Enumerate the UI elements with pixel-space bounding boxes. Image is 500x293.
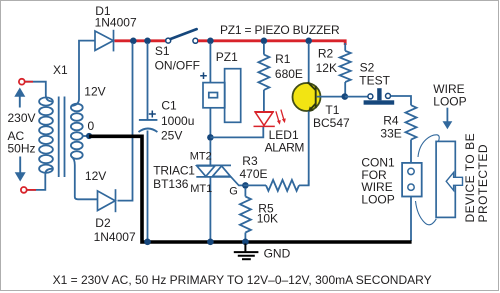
wire: T1 base to node bbox=[317, 96, 345, 98]
svg-text:X1 = 230V AC, 50 Hz PRIMARY TO: X1 = 230V AC, 50 Hz PRIMARY TO 12V–0–12V… bbox=[53, 273, 432, 287]
wire: secondary bottom to D2 anode bbox=[72, 157, 98, 200]
wire: 230V bottom terminal to primary bottom bbox=[25, 169, 53, 190]
svg-text:PZ1: PZ1 bbox=[216, 50, 238, 64]
svg-text:LOOP: LOOP bbox=[361, 192, 394, 206]
LED1 bbox=[254, 110, 286, 127]
svg-text:D2: D2 bbox=[95, 216, 111, 230]
svg-text:25V: 25V bbox=[161, 128, 182, 142]
node: T1 base / R2 / S2 bbox=[342, 93, 349, 100]
svg-text:680E: 680E bbox=[275, 67, 303, 81]
svg-text:ON/OFF: ON/OFF bbox=[155, 59, 200, 73]
connector CON1 bbox=[402, 163, 422, 197]
svg-text:12K: 12K bbox=[316, 61, 337, 75]
svg-text:GND: GND bbox=[264, 247, 291, 261]
svg-text:R4: R4 bbox=[383, 113, 399, 127]
switch S2 bbox=[345, 96, 368, 98]
svg-text:230V: 230V bbox=[8, 111, 36, 125]
node: C1 on bus bbox=[144, 239, 151, 246]
piezo buzzer PZ1 bbox=[209, 43, 211, 83]
wire loop curve bottom bbox=[416, 201, 437, 225]
svg-text:MT2: MT2 bbox=[190, 150, 212, 162]
svg-text:LOOP: LOOP bbox=[433, 95, 466, 109]
transformer X1 bbox=[25, 41, 98, 200]
plus C1 bbox=[149, 111, 156, 118]
wire: red stub top bbox=[25, 81, 33, 83]
node: gate/R3/R5 bbox=[242, 182, 249, 189]
svg-text:S2: S2 bbox=[360, 60, 375, 74]
svg-text:R3: R3 bbox=[242, 154, 258, 168]
svg-text:PZ1 = PIEZO BUZZER: PZ1 = PIEZO BUZZER bbox=[220, 23, 340, 37]
svg-text:1N4007: 1N4007 bbox=[94, 230, 136, 244]
svg-text:12V: 12V bbox=[85, 169, 106, 183]
svg-text:33E: 33E bbox=[380, 126, 401, 140]
triac TRIAC1 bbox=[209, 141, 211, 166]
svg-text:S1: S1 bbox=[155, 44, 170, 58]
svg-text:1N4007: 1N4007 bbox=[95, 15, 137, 29]
ground bbox=[234, 244, 259, 260]
wire: red bus S1 to R2 corner bbox=[198, 41, 345, 45]
core bbox=[58, 97, 60, 178]
svg-text:BC547: BC547 bbox=[313, 116, 350, 130]
node: R5/GND on bus bbox=[242, 239, 249, 246]
plus PZ1 bbox=[200, 72, 207, 79]
wire: node to LED bottom bbox=[210, 127, 263, 138]
svg-text:TRIAC1: TRIAC1 bbox=[153, 163, 195, 177]
svg-text:BT136: BT136 bbox=[153, 177, 189, 191]
arrow: mains up bbox=[14, 88, 25, 108]
wire: red bus D1 to S1 bbox=[115, 39, 166, 42]
node: center tap 0 bbox=[86, 133, 92, 139]
wire: center tap stub bbox=[83, 135, 90, 137]
transistor T1 bbox=[308, 43, 310, 84]
node: buzzer/LED/MT2 bbox=[207, 134, 214, 141]
arrow: device pointer bbox=[446, 172, 462, 190]
arrow: mains down bbox=[15, 157, 26, 182]
wire: red stub bottom bbox=[27, 189, 36, 191]
svg-text:50Hz: 50Hz bbox=[8, 141, 36, 155]
resistor R5 bbox=[244, 188, 246, 197]
svg-text:TEST: TEST bbox=[359, 73, 390, 87]
node: C1 junction bbox=[144, 38, 151, 45]
node: R1 junction bbox=[261, 38, 268, 45]
svg-text:PROTECTED: PROTECTED bbox=[476, 144, 490, 223]
wire: secondary top to D1 anode bbox=[72, 41, 95, 106]
svg-text:R1: R1 bbox=[275, 52, 291, 66]
switch S1 bbox=[166, 38, 171, 43]
primary coil loops bbox=[39, 97, 53, 105]
svg-text:T1: T1 bbox=[325, 103, 339, 117]
node: D2 return junction bbox=[130, 38, 137, 45]
wire: C1 bottom lead bbox=[147, 131, 149, 242]
resistor R2 bbox=[344, 43, 346, 51]
wire: C1 top lead bbox=[147, 43, 149, 120]
wire: buzzer to node bbox=[209, 108, 211, 138]
svg-text:12V: 12V bbox=[84, 84, 105, 98]
secondary coil loops bbox=[71, 104, 83, 112]
wire loop curve top bbox=[418, 135, 439, 157]
svg-text:X1: X1 bbox=[53, 63, 68, 77]
svg-text:ALARM: ALARM bbox=[265, 140, 305, 154]
resistor R1 bbox=[263, 43, 265, 55]
wire: CON1 to ground bus bbox=[410, 197, 412, 242]
svg-text:C1: C1 bbox=[161, 99, 177, 113]
node: PZ1 junction bbox=[207, 38, 214, 45]
svg-text:R2: R2 bbox=[318, 46, 334, 60]
wire: 230V top terminal to primary top bbox=[25, 82, 53, 102]
wire: S2 to R4 bbox=[391, 96, 411, 105]
svg-text:10K: 10K bbox=[257, 211, 278, 225]
diode D2 bbox=[98, 189, 116, 212]
svg-text:470E: 470E bbox=[240, 167, 268, 181]
diode D1 bbox=[95, 30, 114, 52]
device rectangle bbox=[436, 141, 455, 217]
wire: D2 cathode riser bbox=[118, 43, 133, 201]
svg-text:G: G bbox=[229, 186, 238, 198]
resistor R4 bbox=[406, 105, 417, 139]
arrow: wire loop down bbox=[446, 108, 448, 124]
node: MT1 on bus bbox=[207, 239, 214, 246]
svg-text:1000u: 1000u bbox=[161, 114, 194, 128]
black return wire: center tap to bottom bus bbox=[89, 136, 412, 242]
svg-text:0: 0 bbox=[88, 119, 95, 133]
node: T1 collector junction bbox=[305, 38, 312, 45]
wire: MT1 to ground bus bbox=[209, 177, 211, 242]
svg-text:MT1: MT1 bbox=[190, 183, 212, 195]
terminal: 230V top bbox=[19, 79, 25, 85]
resistor R3 bbox=[243, 184, 266, 186]
capacitor C1 bbox=[139, 119, 158, 121]
terminal: 230V bottom bbox=[21, 187, 27, 193]
